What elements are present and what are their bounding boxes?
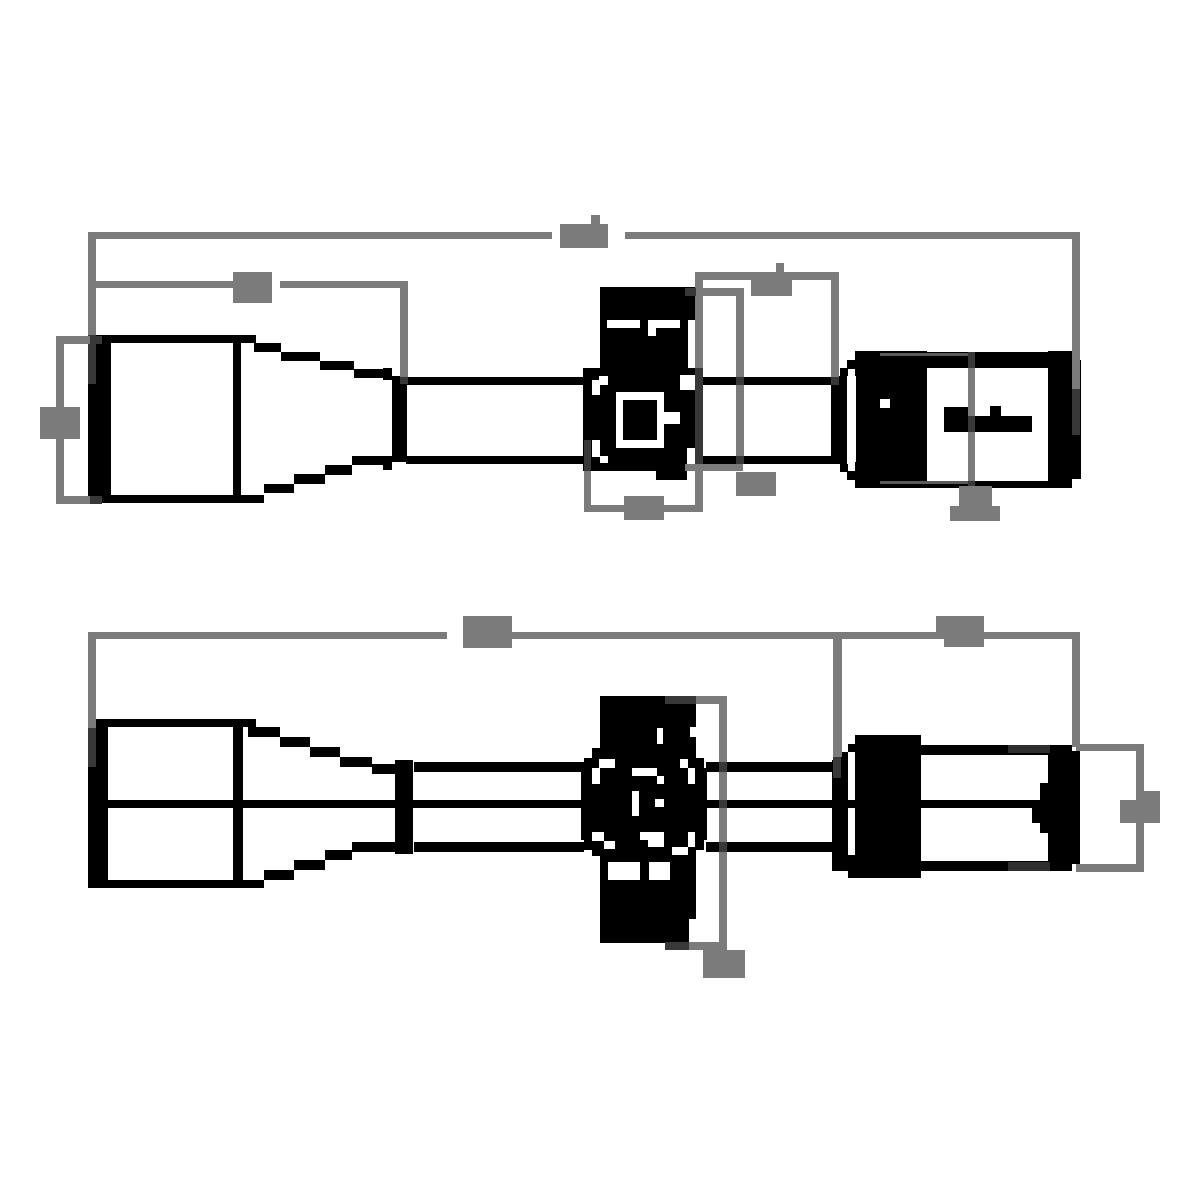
lower taper steps (bottom view) bbox=[264, 842, 400, 880]
upper taper steps (bottom view) bbox=[248, 727, 400, 774]
dimension D10 eyepiece height box (bottom view) bbox=[1008, 744, 1144, 872]
turret knob round body (bottom view) bbox=[581, 748, 707, 856]
turret housing white notches (top view) bbox=[592, 375, 696, 471]
objective bell top edge (bottom view) bbox=[88, 719, 256, 727]
tube shoulder ring (top view) bbox=[383, 368, 407, 470]
knurl line bottom (top view) bbox=[880, 481, 970, 484]
dimension D1 left extension line bbox=[88, 232, 96, 384]
main tube lower line left segment (top view) bbox=[406, 456, 584, 464]
dimension D5 lower horizontal extension (top view) bbox=[685, 464, 743, 471]
turret bottom cap white gaps (bottom view) bbox=[608, 862, 670, 880]
lower taper steps (top view) bbox=[264, 456, 392, 493]
turret center ring white square (top view) bbox=[616, 392, 680, 448]
objective bell left edge (top view) bbox=[88, 335, 111, 503]
dimension D10 label blob bbox=[1120, 791, 1160, 823]
dimension D8 label blob A bbox=[463, 616, 512, 648]
dimension D3 label blob bbox=[40, 407, 80, 439]
dimension D4 label blob bbox=[751, 263, 792, 296]
dimension D7 eyepiece vertical line (top view) bbox=[968, 352, 975, 488]
eyepiece brand text blob (top view) bbox=[944, 406, 1032, 432]
dimension D4 turret box (top view) bbox=[695, 272, 839, 512]
eyepiece power ring body (bottom view) bbox=[855, 735, 921, 878]
main tube lower line right segment (bottom view) bbox=[706, 842, 832, 852]
turret cap (bottom view) bbox=[600, 696, 696, 750]
dimension D2 label blob bbox=[233, 272, 272, 303]
main tube upper line right segment (top view) bbox=[700, 377, 832, 385]
turret bottom stub (top view) bbox=[656, 471, 687, 480]
turret housing body (top view) bbox=[583, 368, 700, 471]
dimension D8 left extension line bbox=[88, 632, 96, 767]
eyepiece ring white slot (bottom view) bbox=[848, 752, 855, 855]
dimension D8 label blob B bbox=[936, 616, 984, 647]
dimension D4 inner extension line bbox=[685, 288, 744, 464]
objective bell bottom edge (top view) bbox=[88, 495, 264, 503]
turret cap white dashes (top view) bbox=[607, 320, 696, 368]
knurl line top (top view) bbox=[880, 353, 970, 356]
main tube upper line left segment (bottom view) bbox=[414, 762, 584, 772]
dimension D8 overall line (bottom view) bbox=[88, 632, 1072, 639]
eyepiece power ring body (top view) bbox=[855, 351, 927, 488]
upper taper steps (top view) bbox=[254, 343, 392, 378]
dimension D6 label blob bbox=[624, 496, 664, 520]
objective bell left edge (bottom view) bbox=[88, 719, 108, 888]
main tube upper line right segment (bottom view) bbox=[706, 762, 832, 772]
eyepiece power ring bar (top view) bbox=[831, 360, 856, 480]
turret center ring inner black (top view) bbox=[623, 400, 657, 440]
dimension D6 turret width bracket (top view) bbox=[584, 440, 703, 512]
scope centerline left segment (bottom view) bbox=[108, 800, 581, 808]
eyepiece ring white dot (top view) bbox=[880, 399, 890, 408]
eyepiece tube top line (bottom view) bbox=[921, 745, 1050, 755]
dimension D2 bell length line (top view) bbox=[88, 281, 408, 288]
eyepiece tube bottom band (top view) bbox=[927, 481, 1048, 488]
dimension D1 total length line (top view) bbox=[88, 232, 1072, 239]
turret knob white marks (bottom view) bbox=[592, 759, 695, 855]
main tube upper line left segment (top view) bbox=[406, 377, 584, 385]
turret cap (top view) bbox=[600, 287, 696, 320]
main tube lower line right segment (top view) bbox=[700, 456, 832, 464]
eyepiece rear ring (bottom view) bbox=[1032, 745, 1080, 871]
dimension D1 right extension line bbox=[1072, 232, 1080, 435]
turret bottom cap (bottom view) bbox=[600, 856, 696, 943]
eyepiece tube top band (top view) bbox=[927, 352, 1048, 368]
turret cap white slot (bottom view) bbox=[657, 727, 696, 744]
dimension D9 turret height bracket (bottom view) bbox=[665, 696, 727, 950]
eyepiece tube bottom line (bottom view) bbox=[921, 861, 1050, 871]
objective bell top edge (top view) bbox=[88, 335, 256, 343]
dimension D1 label blob bbox=[560, 215, 608, 248]
eyepiece power ring bar (bottom view) bbox=[832, 744, 856, 878]
dimension D9 label blob bbox=[703, 950, 745, 978]
dimension D5 label blob bbox=[736, 472, 776, 496]
objective bell separation line (top view) bbox=[233, 335, 241, 503]
objective bell bottom edge (bottom view) bbox=[88, 880, 264, 888]
dimension D7 label blob bbox=[950, 486, 1000, 521]
tube shoulder ring (bottom view) bbox=[395, 760, 413, 854]
eyepiece ring white slot (top view) bbox=[847, 376, 856, 462]
main tube lower line left segment (bottom view) bbox=[414, 842, 584, 852]
turret cap mid band (top view) bbox=[600, 320, 696, 368]
dimension D2 right extension line bbox=[400, 281, 408, 384]
dimension D8 right extension line bbox=[1072, 632, 1080, 747]
scope centerline right segment (bottom view) bbox=[707, 800, 1040, 808]
eyepiece rear ring (top view) bbox=[1048, 351, 1081, 488]
objective bell separation line (bottom view) bbox=[233, 719, 243, 888]
dimension D3 objective diameter bracket (top view) bbox=[56, 336, 102, 504]
dimension D8 inner extension line bbox=[833, 632, 842, 778]
